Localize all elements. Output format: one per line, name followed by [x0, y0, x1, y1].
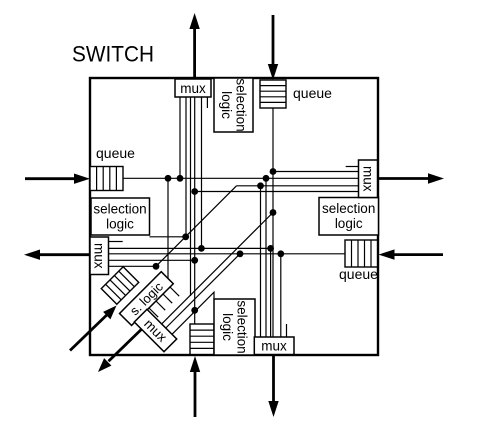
wire diagonal D4 south-logic-to-diag [172, 292, 214, 334]
arrow diagonal input (north-east) [70, 306, 117, 351]
wire north mux input vertical x=190.5 [190, 97, 192, 296]
svg-text:queue: queue [96, 145, 135, 161]
wire east mux control stub y=166.5 [346, 166, 359, 168]
wire s.logic to mux connector 3 [163, 294, 172, 303]
arrow west output (left) [24, 250, 90, 260]
junction west horizontal to north-mux tap [198, 245, 205, 252]
wire s.logic to mux connector 2 [156, 301, 165, 310]
junction east-wire to diag D2 tap [237, 250, 244, 257]
wire west-to-diagonal vertical x=168 [167, 178, 169, 279]
svg-text:selection: selection [93, 202, 146, 217]
arrow east input (left) [379, 249, 444, 259]
queue Q-north (input buffer, horizontal slats) [260, 80, 286, 108]
wire east-to-south vertical x=280.8 [280, 254, 282, 337]
wire diag-to-west horizontal y=266.3 [109, 265, 157, 267]
arrow south input (up) [190, 356, 200, 417]
wire south queue output vertical x=194.7 [194, 97, 196, 324]
junction north-wire to east horizontal tap [270, 168, 277, 175]
svg-text:mux: mux [261, 339, 287, 354]
junction south-wire to east horizontal tap [191, 188, 198, 195]
wire north mux control stub x=207.4 [206, 97, 208, 108]
svg-text:mux: mux [361, 166, 376, 192]
wire s.logic to mux connector 4 [170, 287, 179, 296]
wire north-to-south vertical x=270.6 [270, 248, 272, 337]
wire s.logic to mux connector 1 [149, 308, 158, 317]
wire diag-to-south vertical x=260.5 [260, 186, 262, 337]
wire south mux control stub x=286.5 [286, 324, 288, 337]
selection logic SL-north (rotated) [214, 78, 253, 132]
arrow diagonal output (south-west) [98, 321, 150, 372]
junction diag-wire to south-mux tap [257, 182, 264, 189]
wire diagonal D1 queue-to-east [156, 186, 237, 266]
wire north input vertical x=273 [272, 108, 274, 337]
svg-text:logic: logic [106, 217, 134, 232]
mux M-east (rotated) [359, 160, 378, 198]
wire diag-to-east horizontal y=185.8 [237, 185, 359, 187]
wire selection-logic tap horizontal y=236.8 [150, 236, 187, 238]
mux M-west (rotated) [90, 237, 109, 275]
arrow north output (up) [189, 13, 199, 78]
selection logic SL-diag (s. logic, rotated 45) [120, 272, 174, 326]
switch outer box [90, 78, 378, 355]
svg-text:SWITCH: SWITCH [72, 41, 154, 66]
junction east-wire to south-mux tap [277, 250, 284, 257]
mux M-north [175, 79, 211, 97]
wire west-to-north vertical x=180 [179, 97, 181, 178]
queue Q-south (input buffer, horizontal slats) [190, 324, 214, 355]
svg-text:logic: logic [335, 216, 363, 231]
junction south-wire to diag D4 tap [191, 307, 198, 314]
svg-text:queue: queue [293, 85, 332, 101]
wire north mux input vertical x=201.5 [201, 97, 203, 248]
mux M-diag (rotated 45) [134, 309, 176, 351]
svg-text:selection: selection [234, 78, 249, 131]
junction west-wire to south-mux tap [263, 175, 270, 182]
wire west queue output horizontal y=178.3 [123, 177, 359, 179]
mux M-south [254, 337, 294, 355]
arrow east output (right) [379, 173, 444, 183]
arrow north input (down) [268, 15, 278, 80]
junction D1 diagonal selection-logic tap [182, 233, 189, 240]
svg-text:mux: mux [92, 243, 107, 269]
wire diag-to-north vertical x=186 [185, 97, 187, 237]
wire west-to-south vertical x=266 [265, 178, 267, 337]
svg-text:logic: logic [219, 91, 234, 119]
queue Q-diag (diagonal injection buffer, rotated 45) [101, 267, 138, 304]
svg-text:selection: selection [235, 300, 250, 353]
junction D1 diagonal to west-mux tap [153, 263, 160, 270]
wire diagonal D2 east-to-diag [166, 254, 240, 328]
wire north-to-west horizontal y=248.4 [109, 247, 271, 249]
selection logic SL-south (rotated) [214, 299, 255, 355]
wire west mux control stub y=241.5 [109, 241, 123, 243]
svg-text:mux: mux [180, 81, 206, 96]
wire diagonal D3 north-to-diag [162, 213, 273, 324]
svg-text:selection: selection [322, 201, 375, 216]
arrow west input (right) [25, 174, 90, 184]
svg-text:queue: queue [339, 266, 378, 282]
selection logic SL-west [91, 198, 150, 235]
wire south-to-east horizontal y=191.5 [195, 191, 359, 193]
junction west horizontal to south-mux tap [267, 245, 274, 252]
wire north-to-east horizontal y=171.5 [273, 171, 359, 173]
junction west-wire to north-mux tap [177, 175, 184, 182]
queue Q-east (input buffer, vertical slats) [345, 240, 378, 267]
selection logic SL-east [319, 198, 379, 236]
arrow south output (down) [268, 355, 278, 417]
svg-text:logic: logic [220, 313, 235, 341]
wire east queue output horizontal y=253.8 [109, 253, 346, 255]
junction west-wire to diag tap [165, 175, 172, 182]
junction south-wire to west horizontal tap [191, 257, 198, 264]
wire south-to-west horizontal y=260.3 [109, 259, 195, 261]
queue Q-west (input buffer, vertical slats) [90, 167, 123, 191]
junction north-wire to diag D3 tap [270, 209, 277, 216]
